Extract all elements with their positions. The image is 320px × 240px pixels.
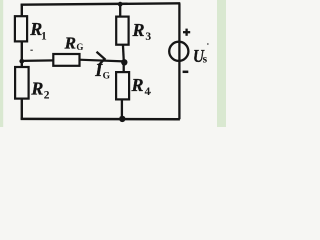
svg-text:3: 3: [145, 31, 151, 43]
resistor R2: [15, 67, 29, 99]
wire left: [21, 4, 23, 120]
minus sign: [183, 71, 189, 74]
wire bridge right segment: [79, 60, 124, 62]
wire right: [178, 3, 180, 119]
wire R3 top stem: [119, 4, 121, 17]
current arrow I_G head: [97, 52, 105, 66]
node junction middle right (bridge to R3/R4): [121, 59, 127, 65]
resistor R1: [15, 16, 27, 41]
wire bridge left segment: [22, 59, 55, 62]
node junction top (R3 to top wire): [118, 2, 123, 7]
speck mark near Us: [207, 43, 209, 45]
svg-text:R: R: [64, 33, 76, 52]
green page edge left: [0, 0, 3, 127]
wire R4 bottom stem: [121, 99, 123, 120]
wire R3 bottom stem: [122, 44, 125, 62]
speck mark after R4 label: [150, 92, 151, 93]
wire bottom: [21, 118, 180, 121]
svg-text:2: 2: [44, 90, 50, 102]
plus sign: [183, 29, 190, 36]
voltage source U_s circle: [169, 42, 188, 61]
svg-text:R: R: [131, 20, 144, 40]
svg-text:s: s: [203, 53, 208, 65]
paper background: [0, 0, 226, 127]
svg-text:G: G: [76, 42, 83, 52]
svg-text:G: G: [103, 72, 111, 82]
wire top: [21, 3, 181, 4]
wire R4 top stem: [123, 62, 125, 74]
green page edge right: [217, 0, 226, 127]
svg-text:R: R: [30, 79, 43, 99]
resistor R3: [116, 17, 128, 45]
speck mark under R1: [30, 50, 32, 51]
node junction left (bridge to left branch): [19, 59, 24, 64]
resistor RG (bridge galvanometer resistance): [53, 54, 79, 66]
svg-text:R: R: [131, 75, 144, 95]
node junction bottom (R4 to bottom wire): [119, 116, 125, 122]
resistor R4: [116, 72, 129, 99]
svg-text:1: 1: [41, 30, 47, 42]
